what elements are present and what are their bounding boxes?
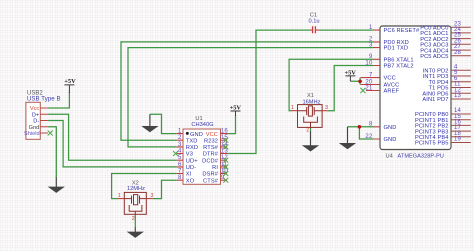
CH340 left pin numbers — [178, 129, 182, 182]
ground symbol below X1 — [304, 131, 318, 151]
wire RXD net: ATmega PD0 to CH340 TXD — [121, 42, 373, 140]
wire X2 pin2 to ground — [134, 214, 136, 228]
wire GND net: ATmega pin8 and pin22 — [348, 127, 374, 139]
wire XTAL1 net: ATmega PB6 to X1 pin1 — [289, 59, 373, 110]
CH340 right pin numbers — [221, 129, 229, 182]
wire CH340 VCC to +5V — [227, 115, 236, 134]
svg-text:DSR#: DSR# — [202, 172, 218, 178]
junction dot GND pin8/pin22 — [358, 125, 362, 129]
svg-text:PCINT5 PB5: PCINT5 PB5 — [415, 141, 449, 147]
svg-text:PD1 TXD: PD1 TXD — [384, 46, 409, 52]
wire RESET net: ATmega pin1 to C1 right plate — [319, 29, 373, 31]
capacitor C1 — [308, 12, 319, 33]
svg-text:GND: GND — [384, 125, 397, 131]
ATmega right pin numbers — [454, 21, 462, 142]
svg-text:28: 28 — [454, 50, 462, 56]
svg-text:V3: V3 — [186, 152, 193, 158]
svg-text:Gnd: Gnd — [29, 125, 40, 131]
svg-text:2: 2 — [306, 128, 309, 134]
svg-text:R232: R232 — [204, 138, 218, 144]
svg-text:1: 1 — [118, 193, 121, 199]
svg-text:0.1u: 0.1u — [308, 18, 319, 24]
svg-text:RTS#: RTS# — [203, 145, 219, 151]
no-connect X CH340 R232 — [223, 138, 228, 143]
USB connector USB2 — [24, 91, 61, 140]
svg-text:6: 6 — [178, 162, 182, 168]
wire USB D+ to CH340 UD+ — [48, 114, 177, 160]
svg-text:8: 8 — [178, 175, 182, 181]
CH340 left pin names — [186, 132, 203, 185]
svg-text:4: 4 — [178, 148, 182, 154]
wire USB Gnd to ground — [48, 127, 56, 178]
wire TXD net: ATmega PD1 to CH340 RXD — [128, 48, 373, 147]
svg-text:PB7 XTAL2: PB7 XTAL2 — [384, 64, 414, 70]
no-connect X CH340 DSR# — [223, 171, 228, 176]
wire USB Vcc to +5V — [48, 92, 70, 108]
svg-text:DTR#: DTR# — [203, 152, 219, 158]
wire +5V to VCC/AVCC of ATmega — [350, 78, 360, 85]
crystal X2 12MHz — [118, 181, 154, 222]
IC U1 CH340G — [177, 116, 227, 185]
svg-text:12MHz: 12MHz — [127, 186, 145, 192]
svg-text:U4: U4 — [386, 153, 393, 159]
svg-text:GND: GND — [190, 132, 203, 138]
svg-text:PB6 XTAL1: PB6 XTAL1 — [384, 57, 414, 63]
svg-text:5: 5 — [178, 155, 182, 161]
svg-text:+5V: +5V — [64, 78, 76, 85]
svg-text:Shield: Shield — [24, 131, 40, 137]
svg-text:2: 2 — [178, 135, 182, 141]
wire USB D- to CH340 UD- — [48, 121, 177, 167]
crystal X1 16MHz — [291, 93, 328, 134]
svg-text:RI: RI — [212, 165, 218, 171]
svg-text:GND: GND — [384, 137, 397, 143]
no-connect X on CH340 V3 — [173, 151, 178, 156]
+5V symbol at ATmega VCC — [344, 69, 356, 81]
svg-text:XO: XO — [186, 178, 195, 184]
svg-text:16: 16 — [221, 129, 229, 135]
no-connect X on USB Shield — [48, 131, 53, 136]
svg-text:ATMEGA328P-PU: ATMEGA328P-PU — [398, 153, 444, 159]
svg-text:13: 13 — [454, 93, 462, 99]
wire CH340 XI to X2 pin1 — [112, 174, 177, 199]
svg-text:XI: XI — [186, 172, 192, 178]
CH340 right pin names — [202, 132, 219, 185]
svg-text:DCD#: DCD# — [202, 158, 219, 164]
svg-text:VCC: VCC — [384, 76, 396, 82]
svg-text:1: 1 — [291, 105, 294, 111]
IC U4 ATMEGA328P-PU — [366, 26, 451, 159]
svg-text:3: 3 — [178, 142, 182, 148]
svg-text:RXD: RXD — [186, 145, 198, 151]
svg-text:8: 8 — [369, 122, 373, 128]
ground symbol below X2 — [129, 228, 143, 238]
svg-text:AREF: AREF — [384, 89, 400, 95]
no-connect X CH340 CTS# — [223, 178, 228, 183]
no-connect X CH340 RI — [223, 164, 228, 169]
svg-text:CH340G: CH340G — [191, 122, 213, 128]
junction dot +5V/VCC — [358, 80, 362, 84]
svg-text:3: 3 — [369, 42, 373, 48]
svg-text:3: 3 — [151, 193, 154, 199]
svg-text:22: 22 — [365, 134, 373, 140]
svg-text:D-: D- — [33, 119, 39, 125]
svg-text:21: 21 — [365, 85, 373, 91]
svg-text:2: 2 — [132, 216, 135, 222]
ground symbol for CH340 GND — [143, 114, 157, 131]
svg-text:D+: D+ — [32, 112, 39, 118]
svg-text:+5V: +5V — [344, 69, 356, 76]
svg-text:TXD: TXD — [186, 138, 198, 144]
ATmega right pin stubs — [451, 27, 471, 142]
ATmega left pin numbers — [365, 25, 373, 140]
svg-text:7: 7 — [178, 168, 182, 174]
svg-text:Vcc: Vcc — [30, 106, 40, 112]
svg-text:U1: U1 — [195, 116, 202, 122]
ATmega left pin names — [384, 28, 421, 143]
svg-text:UD+: UD+ — [186, 158, 198, 164]
svg-text:AIN1 PD7: AIN1 PD7 — [422, 97, 448, 103]
svg-text:PC5 ADC5: PC5 ADC5 — [420, 54, 448, 60]
+5V symbol at CH340 VCC — [230, 105, 242, 116]
svg-text:X1: X1 — [307, 93, 314, 99]
svg-text:3: 3 — [325, 105, 328, 111]
svg-text:19: 19 — [454, 137, 462, 143]
no-connect X CH340 DCD# — [223, 158, 228, 163]
svg-text:1: 1 — [178, 129, 182, 135]
no-connect X on ATmega AREF — [360, 88, 365, 93]
svg-text:1: 1 — [369, 25, 373, 31]
ground symbol below USB Gnd — [50, 178, 64, 193]
no-connect X CH340 RTS# — [223, 144, 228, 149]
svg-text:USB Type B: USB Type B — [27, 96, 61, 102]
svg-text:10: 10 — [365, 60, 373, 66]
+5V symbol at USB Vcc — [64, 78, 76, 93]
wire XTAL2 net: ATmega PB7 to X1 pin3 — [327, 66, 373, 111]
svg-text:7: 7 — [369, 72, 373, 78]
svg-text:13: 13 — [221, 148, 229, 154]
wire X1 pin2 to ground — [310, 127, 312, 131]
svg-text:CTS#: CTS# — [203, 178, 219, 184]
wire CH340 GND to ground — [150, 114, 177, 133]
svg-text:VCC: VCC — [206, 132, 218, 138]
ground symbol for ATmega GND pins — [341, 127, 355, 149]
wire CH340 XO to X2 pin3 — [153, 180, 177, 198]
wire RESET net: C1 left plate to CH340 DTR# — [227, 30, 309, 153]
svg-text:9: 9 — [369, 54, 373, 60]
ATmega right pin names — [415, 25, 449, 146]
svg-text:PC6 RESET#: PC6 RESET# — [384, 28, 421, 34]
svg-text:UD-: UD- — [186, 165, 196, 171]
